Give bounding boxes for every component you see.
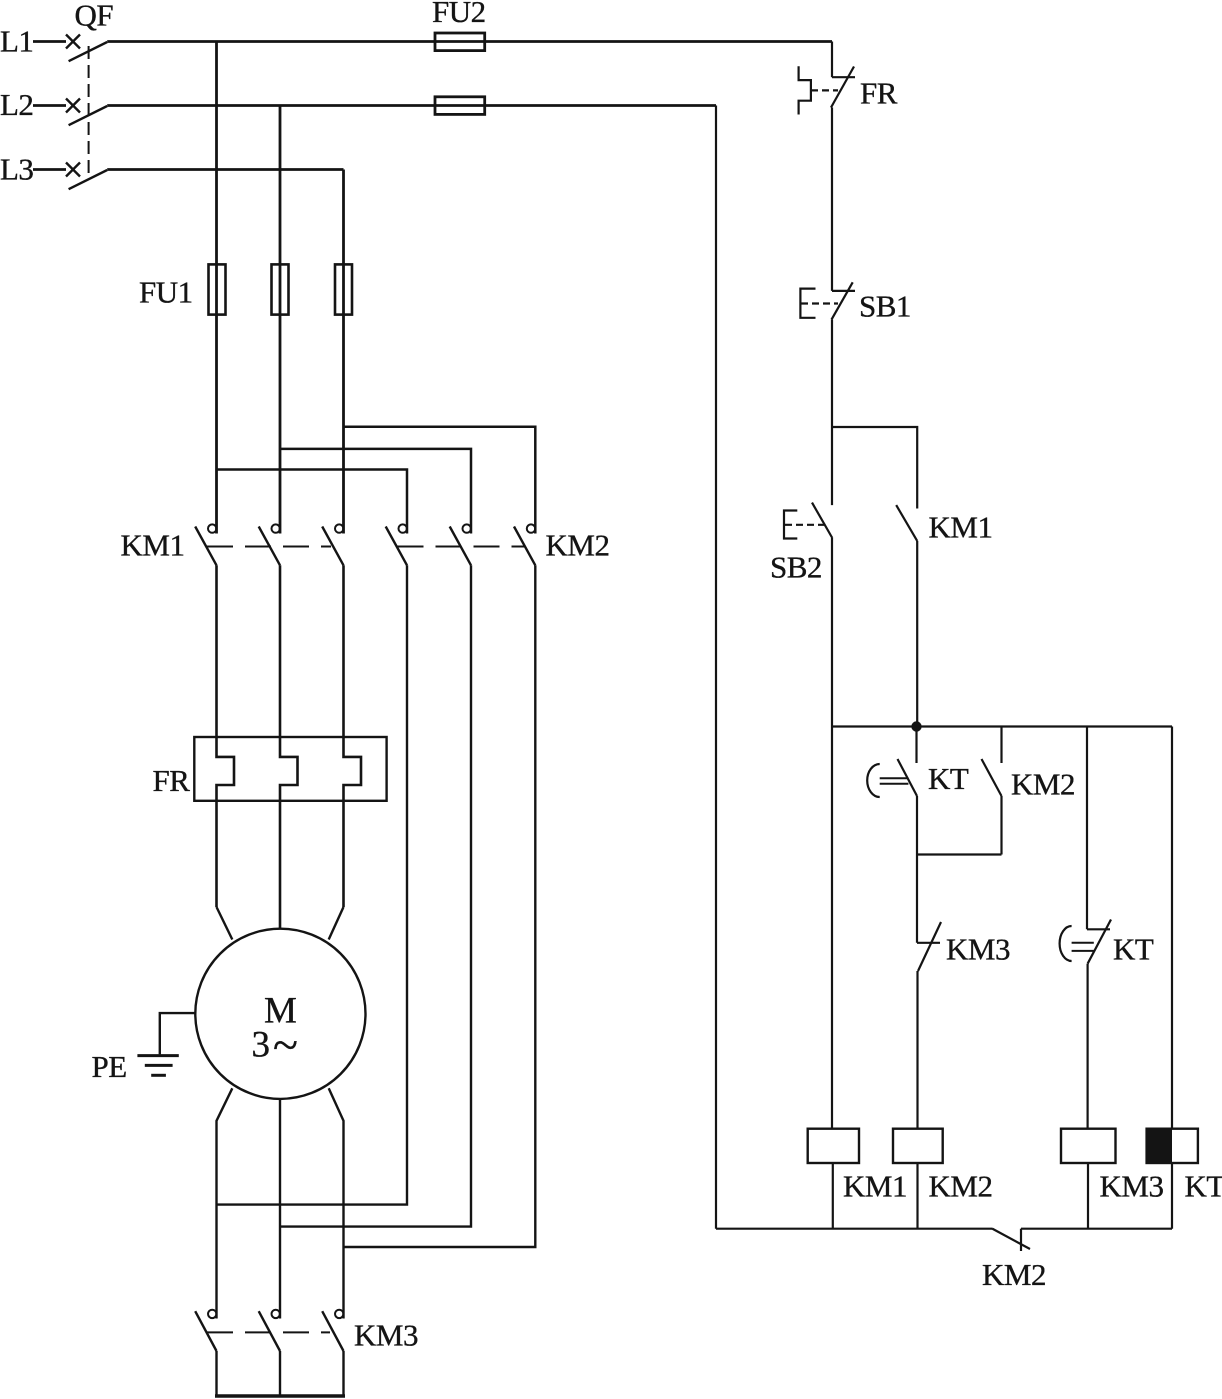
circuit breaker QF [66, 0, 113, 189]
svg-text:KM2: KM2 [982, 1257, 1046, 1292]
coil KT [1147, 1129, 1222, 1204]
contact KM1 aux NO (seal-in) [896, 505, 992, 544]
svg-text:KM1: KM1 [843, 1169, 907, 1204]
wire KM1 aux to node [916, 541, 918, 727]
coil KM3 [1061, 1129, 1163, 1204]
wire L2 bus [107, 104, 716, 107]
svg-text:FR: FR [860, 76, 898, 111]
thermal relay FR heater box [153, 737, 387, 801]
contact KM2 aux NO [982, 727, 1075, 855]
svg-text:KT: KT [1113, 932, 1154, 967]
svg-text:L3: L3 [0, 152, 33, 187]
wire bottom bus left [716, 1228, 992, 1230]
wire L3 bus [107, 168, 343, 171]
junction node A [911, 721, 921, 731]
contactor KM1 main contacts [121, 524, 344, 565]
wire star point bar [215, 1394, 345, 1397]
coil KM1 [808, 1129, 907, 1204]
ground PE [92, 1013, 195, 1084]
wire W to KM2 pole 3 [344, 427, 536, 534]
wire L1 bus [107, 40, 832, 43]
svg-text:KM3: KM3 [354, 1318, 418, 1353]
wire SB1 to SB2 [831, 320, 833, 506]
contact KT delayed-open NC [1060, 920, 1154, 967]
svg-text:SB2: SB2 [770, 550, 822, 585]
svg-text:QF: QF [75, 0, 114, 33]
wire KM2 pole3 to motor terminal V2 [344, 565, 536, 1247]
svg-text:KM2: KM2 [546, 528, 610, 563]
contactor KM3 star contacts [195, 1310, 418, 1353]
pushbutton SB2 (start, NO) [770, 503, 832, 585]
wire KM1 pole3 to FR heater 3 and motor [344, 565, 362, 907]
svg-text:PE: PE [92, 1049, 127, 1084]
wire phase U vertical [215, 42, 218, 534]
wire parallel join [917, 853, 1002, 855]
node L3 [0, 152, 66, 187]
wire join down to KM3 NC [916, 855, 918, 943]
wire control left rail from L2 [715, 106, 717, 1229]
wire KT coil to bus [1171, 1163, 1173, 1229]
svg-text:KM2: KM2 [929, 1169, 993, 1204]
wire branch to KM1 aux [832, 427, 917, 509]
svg-text:KT: KT [1185, 1169, 1222, 1204]
contact KM2 aux NC (in bus) [982, 1229, 1046, 1293]
wire KM2 pole2 to motor terminal U2 [280, 565, 471, 1226]
svg-text:3: 3 [252, 1025, 271, 1066]
contactor KM2 main contacts [386, 524, 610, 565]
node L1 [0, 24, 66, 59]
wire U to KM2 pole 1 [217, 470, 408, 534]
wire KM2 pole1 to motor terminal W2 [217, 565, 408, 1204]
wire motor U2 down to KM3 [279, 1099, 281, 1319]
wire KM3 pole bottoms [215, 1351, 217, 1396]
wire KM1 coil to bus [832, 1163, 834, 1229]
contact KM3 aux NC (interlock) [917, 922, 1010, 971]
wire KM3 NC to KM2 coil [916, 971, 918, 1129]
svg-text:FR: FR [153, 763, 191, 798]
wire KM1 pole1 to FR heater 1 and motor [217, 565, 235, 907]
wire phase W vertical [342, 170, 345, 534]
svg-text:L1: L1 [0, 24, 33, 59]
svg-text:KT: KT [928, 761, 969, 796]
thermal relay FR NC contact [799, 66, 898, 114]
wire KM1 pole2 to FR heater 2 and motor [280, 565, 298, 928]
wire FR to SB1 [831, 108, 833, 291]
svg-text:KM1: KM1 [121, 528, 185, 563]
svg-text:KM2: KM2 [1011, 767, 1075, 802]
wire node to KT NC branch [1086, 727, 1088, 930]
wire motor W2 down to KM3 [217, 1088, 233, 1318]
wire node to KT coil branch [1171, 727, 1173, 1129]
wire V to KM2 pole 2 [280, 449, 471, 534]
svg-text:L2: L2 [0, 87, 33, 122]
wire control right rail top [831, 42, 833, 78]
wire KM2 coil to bus [916, 1163, 918, 1229]
wire motor V2 down to KM3 [329, 1088, 344, 1318]
wire KT NC to KM3 coil [1086, 964, 1088, 1129]
svg-text:KM1: KM1 [929, 510, 993, 545]
fuse FU1 [139, 264, 352, 314]
svg-text:SB1: SB1 [859, 289, 911, 324]
fuse FU2 [432, 0, 486, 114]
wire SB2 to node [831, 538, 833, 1129]
svg-text:FU2: FU2 [432, 0, 486, 29]
node L2 [0, 87, 66, 122]
coil KM2 [893, 1129, 992, 1204]
svg-text:~: ~ [273, 1019, 298, 1070]
pushbutton SB1 (stop, NC) [800, 282, 911, 323]
svg-text:KM3: KM3 [946, 932, 1010, 967]
motor M 3~ [195, 907, 365, 1099]
wire KM3 coil to bus [1087, 1163, 1089, 1229]
wire bottom bus right [1021, 1228, 1172, 1230]
svg-text:KM3: KM3 [1100, 1169, 1164, 1204]
contact KT delayed-close NO [867, 727, 969, 855]
svg-text:FU1: FU1 [139, 275, 193, 310]
wire phase V vertical [279, 106, 282, 534]
wire node rail horizontal [832, 725, 1172, 727]
